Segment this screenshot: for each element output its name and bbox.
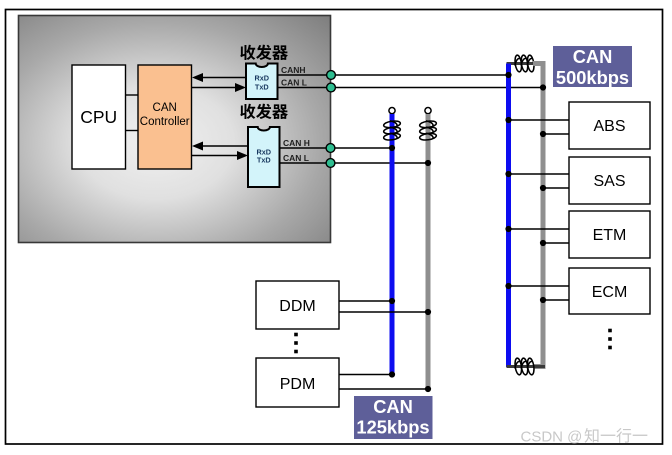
junction CANH-bus [505, 72, 511, 78]
svg-text:CAN: CAN [153, 102, 177, 114]
resistor RT1 (termination coil top) [514, 55, 535, 72]
label transceiver 1 (收发器) [240, 45, 288, 60]
junction CANL-bus [540, 84, 546, 90]
junction ETM-H [505, 226, 511, 232]
wire ETM CANH stub [509, 228, 570, 230]
label CAN 500kbps [553, 46, 632, 88]
transceiver U3 [246, 64, 278, 100]
node CANL feedthrough [327, 83, 336, 92]
wire top termination link 500kbps [507, 62, 546, 65]
resistor RT4 (termination coil on gray 125) [419, 120, 436, 141]
wire CAN H bus 125kbps (blue) [390, 114, 395, 375]
wire SAS CANH stub [509, 173, 570, 175]
wire DDM CANH stub [339, 300, 392, 302]
svg-text:Controller: Controller [140, 116, 190, 128]
svg-text:CAN H: CAN H [283, 138, 310, 148]
wire CPU-controller bus B [126, 130, 139, 132]
svg-text:TxD: TxD [255, 83, 269, 92]
node terminator circle gray 125 [425, 108, 431, 114]
junction ECM-L [540, 297, 546, 303]
transceiver U4 [248, 127, 280, 187]
wire DDM CANL stub [339, 311, 428, 313]
ECU node box (gradient gray) [19, 16, 331, 243]
wire CAN L of U3 [278, 87, 544, 89]
label transceiver 2 (收发器) [240, 104, 288, 119]
ETM node box [569, 211, 650, 258]
DDM node box [256, 281, 339, 329]
junction ECM-H [505, 283, 511, 289]
watermark CSDN [521, 428, 648, 445]
ellipsis more nodes 125kbps [294, 333, 298, 354]
wire bottom termination link 500kbps [507, 365, 546, 368]
svg-text:ABS: ABS [593, 118, 625, 135]
wire CAN H bus 500kbps (blue) [506, 64, 511, 368]
node CAN L feedthrough 2 [326, 159, 335, 168]
wire CPU-controller bus A [126, 94, 139, 96]
junction SAS-H [505, 171, 511, 177]
svg-text:SAS: SAS [593, 173, 625, 190]
svg-text:TxD: TxD [257, 156, 271, 165]
junction SAS-L [540, 185, 546, 191]
wire PDM CANL stub [339, 388, 428, 390]
svg-text:CAN: CAN [573, 46, 613, 67]
wire CAN L bus 500kbps (gray) [533, 64, 543, 367]
junction U4H-bus [389, 145, 395, 151]
wire ETM CANL stub [543, 242, 569, 244]
wire SAS CANL stub [543, 187, 569, 189]
label CAN 125kbps [354, 396, 433, 439]
svg-text:CAN L: CAN L [281, 78, 307, 88]
CAN Controller U2 [138, 65, 192, 169]
node CANH feedthrough [327, 71, 336, 80]
wire TxD controller to U4 [192, 151, 248, 160]
junction PDM-L [425, 386, 431, 392]
wire ABS CANH stub [509, 119, 570, 121]
junction ABS-L [540, 131, 546, 137]
ECM node box [569, 268, 650, 314]
svg-text:500kbps: 500kbps [556, 67, 629, 88]
svg-text:DDM: DDM [279, 298, 315, 315]
junction PDM-H [389, 371, 395, 377]
junction ABS-H [505, 117, 511, 123]
svg-text:CAN L: CAN L [283, 153, 309, 163]
CPU U1 [72, 65, 126, 169]
wire CAN L bus 125kbps (gray) [426, 114, 431, 389]
wire ECM CANL stub [543, 299, 569, 301]
wire ECM CANH stub [509, 285, 570, 287]
resistor RT3 (termination coil on blue 125) [383, 120, 400, 141]
svg-text:CPU: CPU [80, 107, 117, 127]
SAS node box [569, 157, 650, 204]
wire PDM CANH stub [339, 374, 392, 376]
wire CAN H of U4 [280, 147, 393, 149]
wire TxD controller to U3 [192, 83, 246, 92]
svg-text:CANH: CANH [281, 65, 306, 75]
ABS node box [569, 102, 650, 149]
wire ABS CANL stub [543, 133, 569, 135]
svg-text:125kbps: 125kbps [356, 417, 429, 438]
wire CANH of U3 [278, 74, 509, 76]
wire CAN L of U4 [280, 162, 429, 164]
PDM node box [256, 358, 339, 407]
svg-text:ECM: ECM [592, 284, 628, 301]
svg-text:CSDN @: CSDN @ [521, 429, 583, 446]
junction U4L-bus [425, 160, 431, 166]
resistor RT2 (termination coil bottom) [514, 358, 535, 375]
ellipsis more nodes 500kbps [608, 329, 612, 350]
svg-text:RxD: RxD [254, 74, 269, 83]
junction DDM-L [425, 309, 431, 315]
junction DDM-H [389, 298, 395, 304]
node terminator circle blue 125 [389, 108, 395, 114]
svg-text:ETM: ETM [593, 227, 627, 244]
node CAN H feedthrough 2 [326, 144, 335, 153]
wire RxD U3 to controller [192, 73, 246, 82]
wire RxD U4 to controller [192, 142, 248, 151]
svg-text:PDM: PDM [280, 376, 316, 393]
junction ETM-L [540, 240, 546, 246]
svg-text:CAN: CAN [373, 396, 413, 417]
